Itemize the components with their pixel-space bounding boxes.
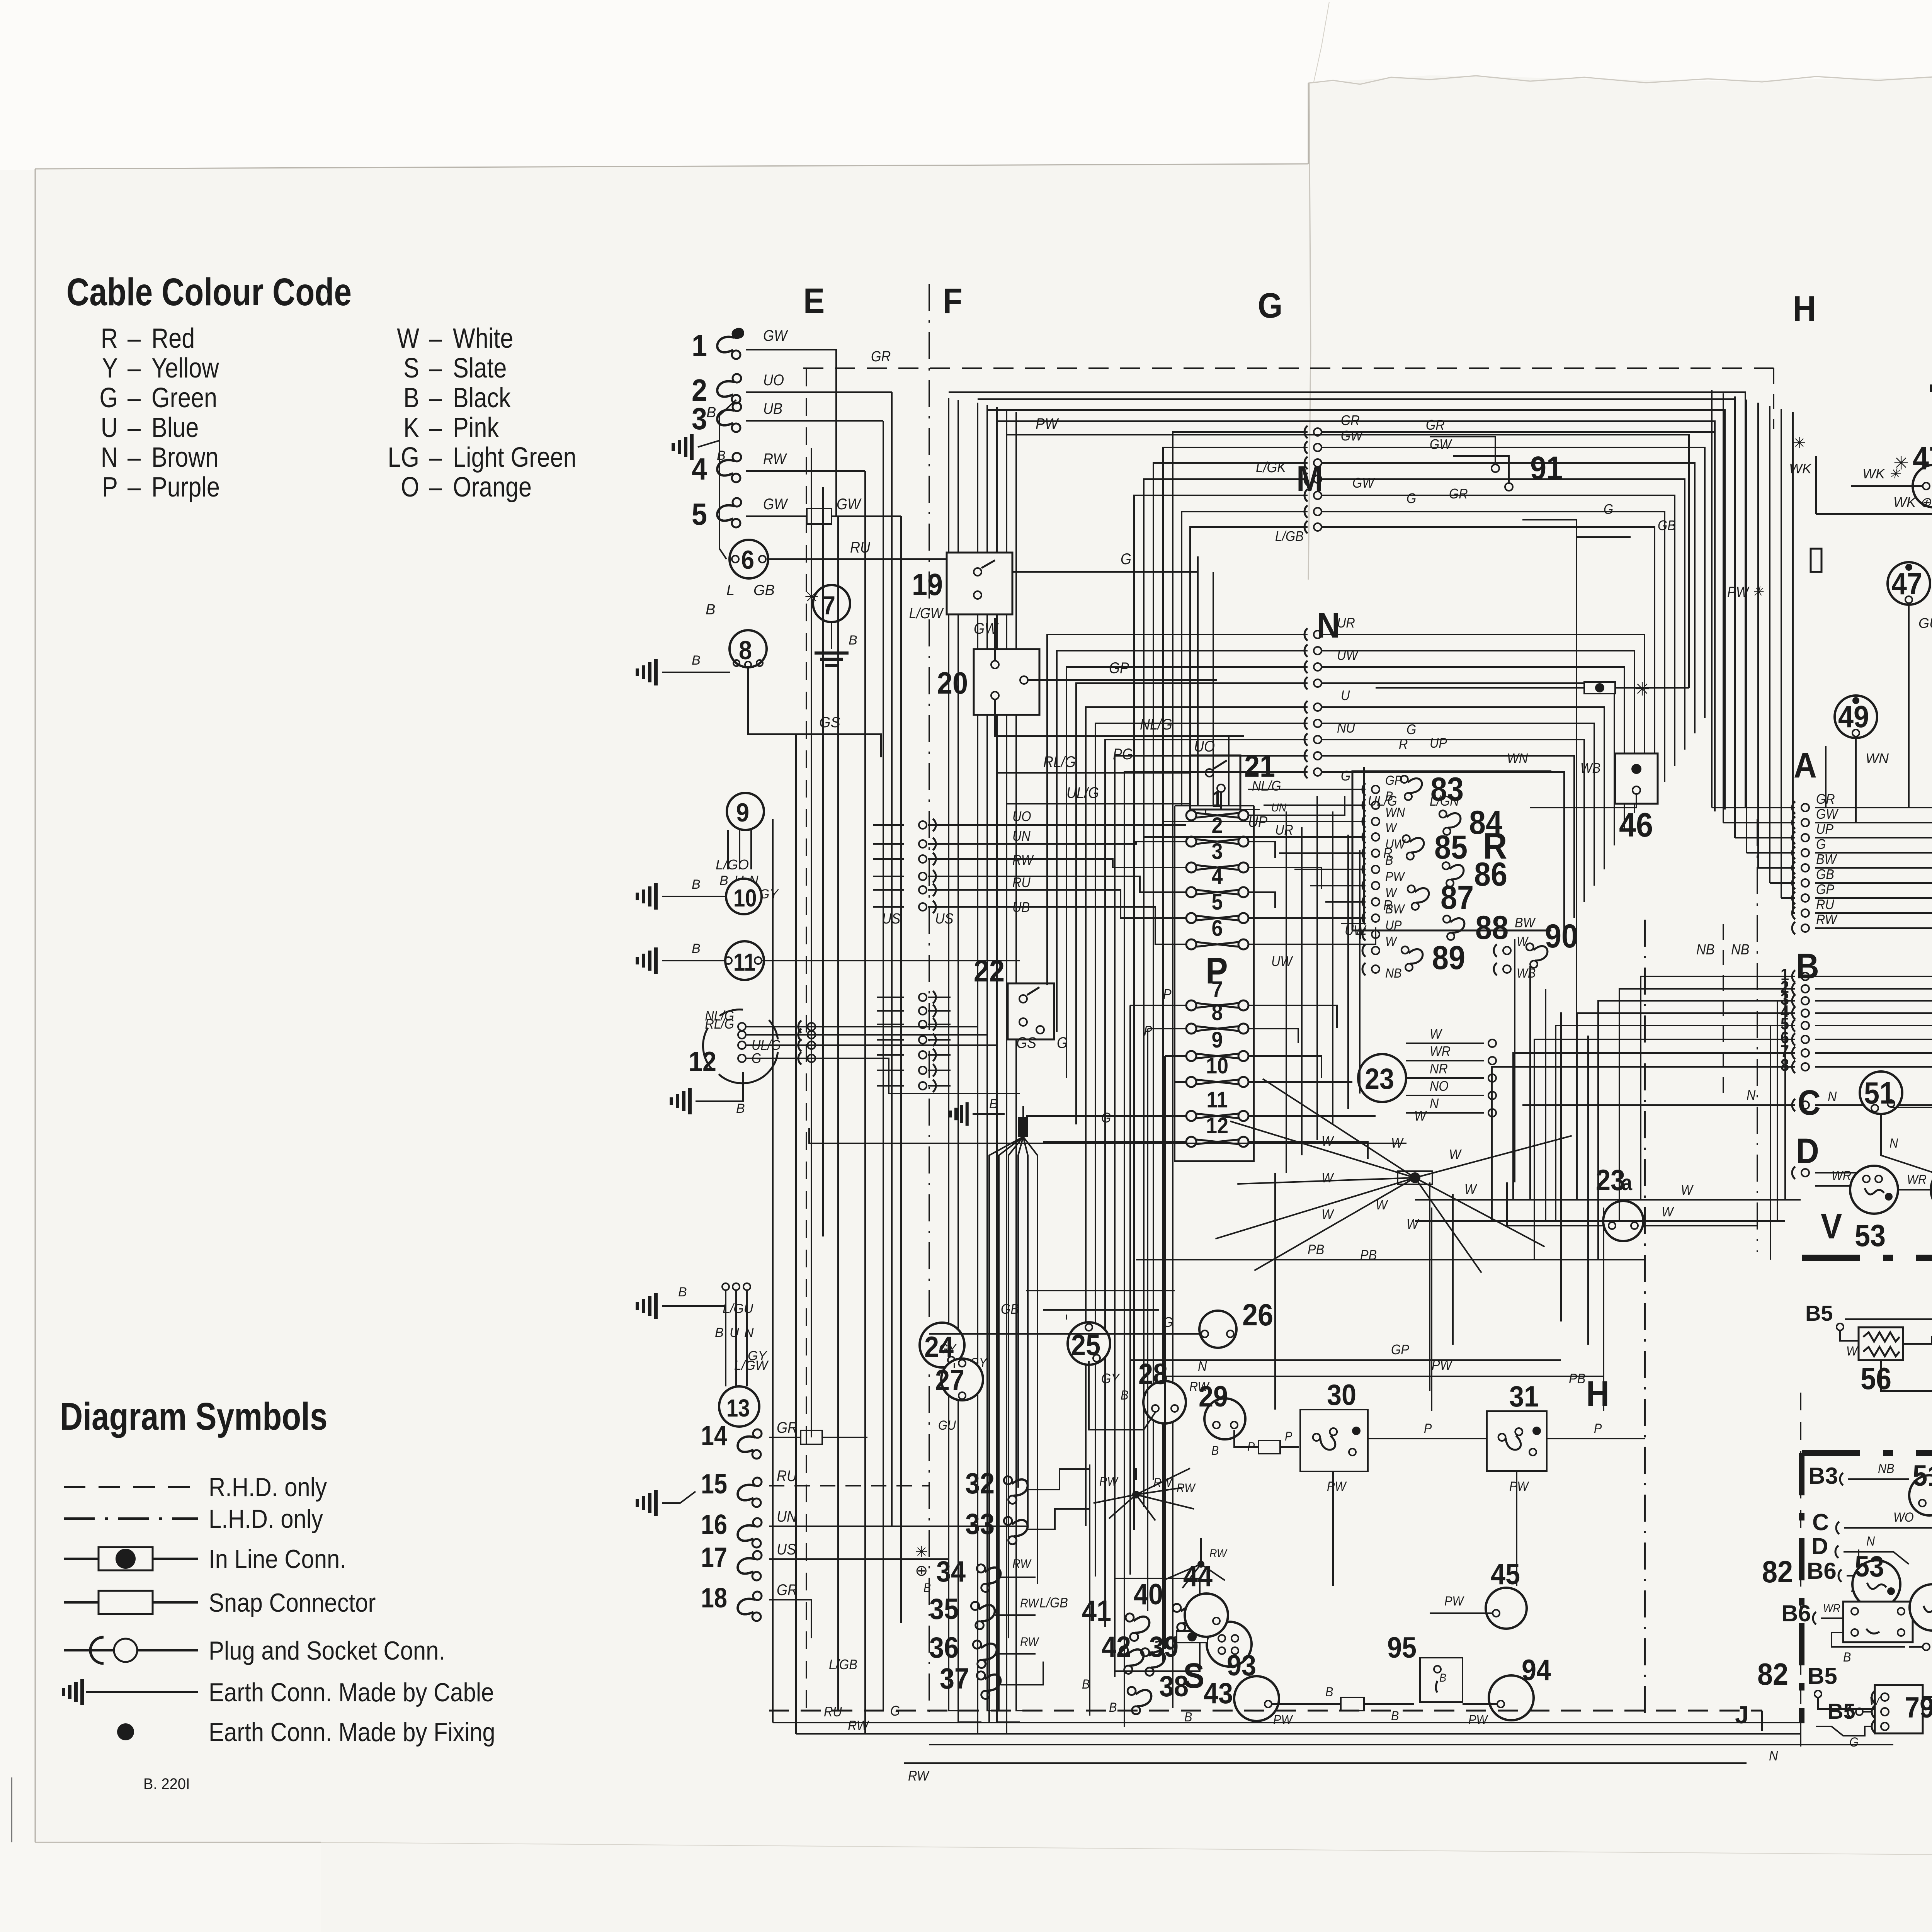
svg-text:WN: WN	[1866, 750, 1889, 766]
svg-text:7: 7	[822, 590, 835, 620]
svg-text:P: P	[1285, 1430, 1293, 1444]
svg-text:GW: GW	[1430, 437, 1452, 452]
component 53 Y box	[1843, 1602, 1913, 1642]
svg-text:V: V	[1821, 1206, 1842, 1246]
H column vertical bundle	[1711, 390, 1713, 808]
svg-text:14: 14	[701, 1420, 727, 1451]
wire UL/G	[1007, 804, 1206, 815]
wire from 23a left	[1507, 1182, 1603, 1226]
wires G GB near 91	[1522, 520, 1631, 537]
svg-text:U: U	[1341, 688, 1350, 703]
contact column on 12 wires	[808, 1023, 815, 1031]
junction spider below 23	[1398, 1171, 1432, 1184]
svg-text:GP: GP	[1816, 882, 1834, 897]
svg-text:22: 22	[974, 954, 1005, 988]
wires out of M contacts right	[1321, 432, 1715, 702]
svg-text:N: N	[1769, 1748, 1778, 1764]
svg-text:S: S	[403, 353, 419, 384]
svg-text:Yellow: Yellow	[151, 353, 219, 384]
svg-text:a: a	[1621, 1171, 1632, 1195]
wire W vertical from B5 row to 56	[1845, 1318, 1932, 1320]
wire from 11 right	[762, 960, 1020, 961]
svg-text:U: U	[730, 1325, 739, 1340]
wire GW sw5 with snap connector	[746, 515, 901, 517]
torn paper edge top	[1308, 76, 1932, 84]
legend earth by cable	[80, 1679, 84, 1705]
svg-text:38: 38	[1159, 1670, 1189, 1703]
wire P between 30 31	[1368, 1438, 1487, 1439]
svg-text:PW: PW	[1327, 1479, 1347, 1494]
wire WB into 46	[1530, 794, 1636, 808]
component 53 Y relay	[1852, 1560, 1900, 1608]
svg-text:16: 16	[701, 1509, 727, 1540]
svg-text:W: W	[1385, 934, 1398, 949]
component 28 lamp	[1143, 1381, 1186, 1423]
wire GR from 14 with inline conn	[769, 1437, 867, 1438]
wire P right of 31	[1547, 1438, 1645, 1439]
svg-text:36: 36	[929, 1632, 959, 1664]
svg-text:B: B	[1385, 789, 1393, 804]
svg-text:B: B	[849, 633, 857, 648]
svg-text:W: W	[1321, 1207, 1334, 1222]
fold crease vertical	[1308, 83, 1311, 580]
box 22 relay	[1008, 983, 1054, 1039]
wire US from 17	[769, 1558, 949, 1560]
svg-text:WN: WN	[1507, 751, 1528, 766]
svg-text:PW: PW	[1444, 1594, 1465, 1609]
component 9 lamp	[727, 793, 764, 830]
LHD dash-dot vertical centre-right	[1644, 920, 1646, 1716]
V wires	[1815, 1185, 1851, 1187]
component 43 motor	[1207, 1622, 1252, 1667]
component 26 lamp	[1199, 1311, 1236, 1348]
svg-text:RU: RU	[1816, 897, 1834, 912]
svg-text:6: 6	[741, 545, 754, 575]
svg-text:R.H.D. only: R.H.D. only	[209, 1472, 327, 1502]
svg-text:WR: WR	[1832, 1168, 1851, 1183]
wire from 23a right	[1643, 1225, 1757, 1226]
svg-text:GY: GY	[939, 1342, 957, 1356]
svg-text:GR: GR	[871, 348, 891, 364]
svg-text:UR: UR	[1337, 615, 1355, 631]
svg-text:B6: B6	[1807, 1558, 1837, 1584]
component 49 lamp	[1835, 696, 1877, 738]
svg-text:UP: UP	[1430, 735, 1447, 751]
E column inner verticals	[811, 448, 812, 1437]
svg-text:H: H	[1586, 1374, 1609, 1413]
box 20 flasher	[974, 649, 1039, 715]
extra drop vertical J	[1825, 746, 1827, 808]
svg-text:94: 94	[1522, 1654, 1551, 1687]
svg-text:L/GU: L/GU	[723, 1301, 753, 1316]
svg-text:W: W	[1406, 1216, 1419, 1232]
svg-text:UR: UR	[1275, 822, 1293, 838]
svg-text:26: 26	[1242, 1298, 1273, 1332]
wire PW into 45	[1430, 1612, 1492, 1614]
earth below 7	[831, 622, 832, 649]
svg-text:Blue: Blue	[151, 412, 199, 443]
svg-text:B: B	[1121, 1388, 1128, 1403]
svg-text:NL/G: NL/G	[1140, 716, 1172, 733]
svg-text:RW: RW	[1020, 1635, 1040, 1649]
svg-text:10: 10	[1206, 1053, 1228, 1078]
B column left wires	[1641, 976, 1795, 1200]
D contact	[1801, 1169, 1809, 1177]
wire WO to 57	[1903, 1337, 1932, 1344]
svg-text:L.H.D. only: L.H.D. only	[209, 1504, 323, 1533]
Y left thick dash-dot border	[1799, 1453, 1804, 1723]
svg-text:18: 18	[701, 1583, 727, 1614]
R block border	[1352, 771, 1551, 930]
svg-text:GR: GR	[1449, 486, 1468, 502]
svg-text:L/GO: L/GO	[716, 857, 749, 872]
wire WR B G row Y	[1832, 1633, 1905, 1647]
svg-text:9: 9	[1211, 1027, 1223, 1052]
svg-text:GR: GR	[1426, 417, 1445, 433]
svg-text:NU: NU	[1337, 720, 1355, 736]
svg-text:L/GK: L/GK	[1256, 459, 1287, 475]
flasher 90 with contacts	[1503, 947, 1511, 954]
svg-text:NB: NB	[1878, 1461, 1894, 1476]
svg-text:B: B	[1843, 1650, 1851, 1665]
RHD dashed vertical at J bottom	[1800, 1393, 1801, 1709]
left rail risers	[772, 819, 774, 1723]
box 21 relay	[1190, 755, 1240, 810]
svg-text:53: 53	[1855, 1219, 1886, 1253]
component 79 connector box	[1875, 1685, 1923, 1733]
svg-text:RW: RW	[1099, 1475, 1119, 1489]
earth above-left of 13	[662, 1305, 726, 1307]
earth to 10	[662, 896, 726, 897]
svg-text:13: 13	[726, 1394, 750, 1422]
svg-text:G: G	[1258, 286, 1282, 325]
svg-text:WR: WR	[1430, 1044, 1451, 1059]
svg-text:Earth Conn. Made by Cable: Earth Conn. Made by Cable	[209, 1677, 494, 1707]
flasher 84	[1438, 806, 1464, 836]
svg-text:5: 5	[692, 497, 707, 532]
junction drops	[1429, 1182, 1430, 1391]
svg-text:32: 32	[965, 1468, 995, 1500]
wire B5 to 60 box	[1818, 1682, 1932, 1709]
legend plug and socket connector	[64, 1649, 198, 1651]
svg-text:GW: GW	[1816, 806, 1838, 822]
svg-text:2: 2	[1211, 813, 1223, 838]
svg-text:12: 12	[689, 1046, 716, 1077]
component 31 switchbox	[1487, 1411, 1547, 1471]
svg-text:88: 88	[1475, 909, 1509, 946]
svg-text:PW: PW	[1509, 1479, 1530, 1494]
svg-text:C: C	[1812, 1509, 1829, 1535]
svg-text:GR: GR	[1341, 413, 1360, 428]
svg-text:White: White	[453, 323, 513, 354]
svg-text:N: N	[1828, 1089, 1837, 1104]
RHD dashed border right drop	[1773, 368, 1774, 429]
svg-text:RU: RU	[850, 539, 870, 556]
svg-text:93: 93	[1227, 1650, 1256, 1682]
svg-text:84: 84	[1469, 804, 1503, 841]
svg-text:G: G	[1101, 1110, 1111, 1126]
wire RW sw4 down	[746, 470, 865, 472]
N contact column	[1314, 631, 1321, 638]
svg-text:Slate: Slate	[453, 353, 507, 384]
svg-text:In Line Conn.: In Line Conn.	[209, 1544, 346, 1573]
svg-text:G: G	[99, 383, 118, 413]
component 12 connector circle	[703, 1010, 778, 1083]
svg-text:–: –	[128, 442, 141, 473]
component 25 lamp	[1068, 1322, 1110, 1365]
component 54 Y relay	[1910, 1584, 1932, 1631]
svg-text:–: –	[128, 383, 141, 413]
svg-text:LG: LG	[388, 442, 419, 473]
component 27 lamp	[941, 1359, 983, 1400]
svg-text:B: B	[717, 448, 726, 463]
svg-text:WB: WB	[1580, 760, 1600, 776]
svg-text:GW: GW	[837, 496, 862, 513]
svg-text:B: B	[1325, 1685, 1333, 1699]
svg-text:45: 45	[1491, 1558, 1520, 1591]
earth wire B to 8	[662, 672, 730, 673]
flasher 89 with contacts	[1372, 947, 1379, 954]
svg-text:43: 43	[1204, 1677, 1233, 1710]
wire UB sw3 down	[746, 420, 883, 422]
svg-text:P: P	[1594, 1421, 1602, 1436]
svg-text:PB: PB	[1569, 1371, 1585, 1386]
svg-text:L/GB: L/GB	[829, 1657, 857, 1672]
svg-text:✳: ✳	[1634, 679, 1650, 700]
svg-text:O: O	[401, 472, 419, 503]
svg-text:B: B	[706, 405, 716, 421]
bottom dashed RHD rail	[769, 1710, 1762, 1712]
svg-text:RU: RU	[1012, 875, 1031, 890]
fan wires from junction to loom lanes	[989, 1137, 1023, 1723]
legend earth by fixing	[117, 1723, 134, 1740]
wire RU from 6	[768, 558, 949, 560]
svg-text:PW: PW	[1468, 1713, 1489, 1727]
svg-text:US: US	[935, 910, 953, 927]
svg-text:B: B	[1385, 853, 1393, 868]
component 47 lamp	[1888, 562, 1930, 605]
svg-text:L/GB: L/GB	[1275, 529, 1304, 544]
wire RL/G	[997, 773, 1229, 788]
svg-text:N: N	[1317, 605, 1340, 645]
svg-text:UL/G: UL/G	[1066, 784, 1099, 801]
svg-text:W: W	[1846, 1344, 1859, 1359]
flasher 85	[1401, 831, 1427, 861]
svg-text:N: N	[1747, 1087, 1756, 1103]
svg-text:49: 49	[1838, 700, 1869, 734]
svg-text:G: G	[1816, 837, 1826, 852]
legend LHD dash-dot line	[64, 1517, 198, 1520]
loom channel extra verticals	[1129, 1005, 1131, 1575]
svg-text:A: A	[1794, 745, 1817, 785]
RHD dashed vertical left side	[806, 369, 807, 1711]
wire GR from 18	[769, 1600, 811, 1638]
svg-text:B: B	[719, 873, 728, 888]
svg-text:RL/G: RL/G	[1043, 753, 1076, 770]
component 23a lamp	[1603, 1201, 1643, 1241]
svg-text:W: W	[1869, 1695, 1880, 1708]
svg-text:46: 46	[1619, 806, 1653, 844]
component 24 lamp	[920, 1323, 964, 1367]
star WK drop to A row	[1815, 456, 1817, 514]
svg-text:B: B	[1082, 1677, 1090, 1692]
svg-text:D: D	[1811, 1533, 1828, 1559]
svg-text:83: 83	[1430, 771, 1464, 808]
svg-text:D: D	[1796, 1131, 1819, 1171]
N wire into C from left	[1522, 1104, 1795, 1106]
wire GY between 24 27	[954, 1363, 955, 1368]
svg-text:27: 27	[935, 1364, 964, 1397]
svg-text:WK: WK	[1789, 461, 1812, 476]
earth to 11	[662, 960, 725, 961]
RHD dashed border top	[803, 367, 1774, 369]
svg-text:B: B	[989, 1097, 998, 1111]
page bottom edge	[35, 1842, 321, 1843]
svg-text:UN: UN	[1271, 801, 1286, 815]
svg-text:9: 9	[736, 798, 749, 827]
wire UO sw2 down	[746, 391, 892, 393]
R block contact stack	[1372, 786, 1379, 793]
svg-text:L/GB: L/GB	[1039, 1595, 1068, 1611]
svg-text:7: 7	[1211, 976, 1223, 1002]
svg-text:GP: GP	[1391, 1342, 1409, 1357]
svg-text:R: R	[101, 323, 118, 354]
svg-text:RU: RU	[777, 1468, 797, 1485]
wire PW 93 to 95	[1272, 1703, 1414, 1705]
loom horizontal N	[1165, 1376, 1604, 1377]
verticals feeding 30 31 from loom	[1274, 1173, 1276, 1410]
svg-text:Purple: Purple	[151, 472, 220, 503]
svg-text:UW: UW	[1337, 648, 1359, 663]
C contacts	[1801, 1101, 1809, 1109]
svg-text:W: W	[1414, 1108, 1427, 1124]
svg-text:17: 17	[701, 1542, 727, 1573]
svg-text:1: 1	[692, 329, 707, 363]
wires from 23 to contacts	[1406, 1043, 1484, 1044]
svg-text:10: 10	[733, 884, 757, 912]
component 44 motor	[1206, 1609, 1207, 1610]
dot on switch 1	[733, 328, 744, 338]
svg-text:W: W	[397, 323, 419, 354]
svg-text:J: J	[1735, 1701, 1749, 1729]
svg-text:28: 28	[1138, 1358, 1168, 1391]
svg-text:BW: BW	[1385, 902, 1406, 917]
svg-text:UN: UN	[1012, 828, 1031, 844]
svg-text:WK ⊕: WK ⊕	[1893, 494, 1932, 510]
svg-text:35: 35	[929, 1593, 959, 1626]
svg-text:GU: GU	[1918, 615, 1932, 631]
svg-text:8: 8	[1211, 1000, 1223, 1025]
svg-text:W: W	[1385, 821, 1398, 835]
svg-text:GB: GB	[1001, 1301, 1019, 1317]
svg-text:4: 4	[1211, 863, 1223, 888]
svg-text:–: –	[429, 412, 442, 443]
wire GB down to 24 region	[1066, 1315, 1067, 1320]
svg-text:GW: GW	[974, 620, 999, 637]
svg-text:NB: NB	[1385, 966, 1401, 981]
loom verticals upper connectors	[1197, 556, 1199, 806]
page left edge	[35, 169, 36, 1842]
wire GW sw1 down	[746, 350, 836, 516]
flasher 83	[1399, 772, 1425, 801]
component 13 lamp	[719, 1386, 759, 1427]
svg-text:B: B	[678, 1285, 687, 1299]
svg-text:W: W	[1449, 1147, 1462, 1162]
svg-text:WN: WN	[1385, 805, 1405, 820]
svg-text:NR: NR	[1430, 1061, 1448, 1077]
svg-text:NB: NB	[1696, 941, 1714, 957]
wire G from 19	[1012, 556, 1198, 572]
svg-text:G: G	[1849, 1735, 1859, 1750]
wires into M contacts from left (turn down into loom)	[1173, 432, 1308, 1708]
svg-text:3: 3	[692, 402, 707, 436]
svg-text:US: US	[777, 1541, 796, 1558]
svg-text:–: –	[429, 383, 442, 413]
component 7 lamp starred	[813, 585, 850, 622]
svg-text:RW: RW	[1153, 1476, 1173, 1490]
svg-text:G: G	[1406, 491, 1416, 506]
svg-text:87: 87	[1440, 879, 1474, 916]
svg-text:19: 19	[912, 568, 943, 602]
svg-text:P: P	[1424, 1421, 1432, 1436]
svg-text:GW: GW	[763, 327, 788, 344]
bottom solid rail 4	[904, 1762, 1747, 1764]
wire W from B5	[1840, 1331, 1859, 1341]
svg-text:N: N	[1889, 1136, 1898, 1151]
svg-text:GB: GB	[753, 582, 775, 599]
svg-text:✳: ✳	[915, 1544, 928, 1561]
vertical bundle bottoms hook right	[949, 1642, 972, 1711]
component 56 resistor box	[1859, 1327, 1903, 1360]
wires into 79	[1816, 1726, 1872, 1736]
svg-text:51: 51	[1864, 1076, 1895, 1111]
svg-text:Green: Green	[151, 383, 217, 413]
P block right wires	[1248, 796, 1345, 815]
P block outline	[1175, 806, 1254, 1161]
svg-text:B3: B3	[1808, 1463, 1838, 1489]
A row contacts and wires to right	[1801, 804, 1809, 811]
svg-text:GP: GP	[1109, 660, 1129, 677]
svg-text:6: 6	[1211, 915, 1223, 940]
svg-text:85: 85	[1434, 829, 1468, 866]
long horizontal through loom y2959	[809, 1128, 1406, 1143]
svg-text:–: –	[429, 442, 442, 473]
svg-text:✳: ✳	[1793, 435, 1806, 452]
svg-text:GR: GR	[777, 1582, 798, 1599]
svg-text:P: P	[1163, 986, 1172, 1002]
svg-text:U: U	[101, 412, 118, 443]
svg-text:GW: GW	[1341, 428, 1363, 444]
svg-text:5: 5	[1211, 889, 1223, 914]
svg-text:B: B	[706, 602, 715, 618]
top trunk GW	[978, 399, 1735, 815]
svg-text:Snap Connector: Snap Connector	[209, 1588, 376, 1617]
svg-text:UO: UO	[1012, 809, 1031, 824]
svg-text:RW: RW	[1012, 1557, 1032, 1571]
svg-text:W: W	[1385, 886, 1398, 900]
svg-text:RW: RW	[1020, 1597, 1040, 1611]
svg-text:42: 42	[1102, 1631, 1131, 1663]
svg-text:RL/G: RL/G	[705, 1016, 734, 1032]
wire NL/G from 20	[995, 699, 1244, 736]
svg-text:3: 3	[1211, 838, 1223, 864]
svg-text:W: W	[1517, 934, 1529, 949]
svg-text:PW ✳: PW ✳	[1727, 583, 1764, 600]
svg-text:–: –	[128, 323, 141, 354]
svg-text:UW: UW	[1271, 954, 1293, 969]
svg-text:L/GW: L/GW	[909, 605, 944, 621]
P wire into 30	[1234, 1430, 1299, 1447]
